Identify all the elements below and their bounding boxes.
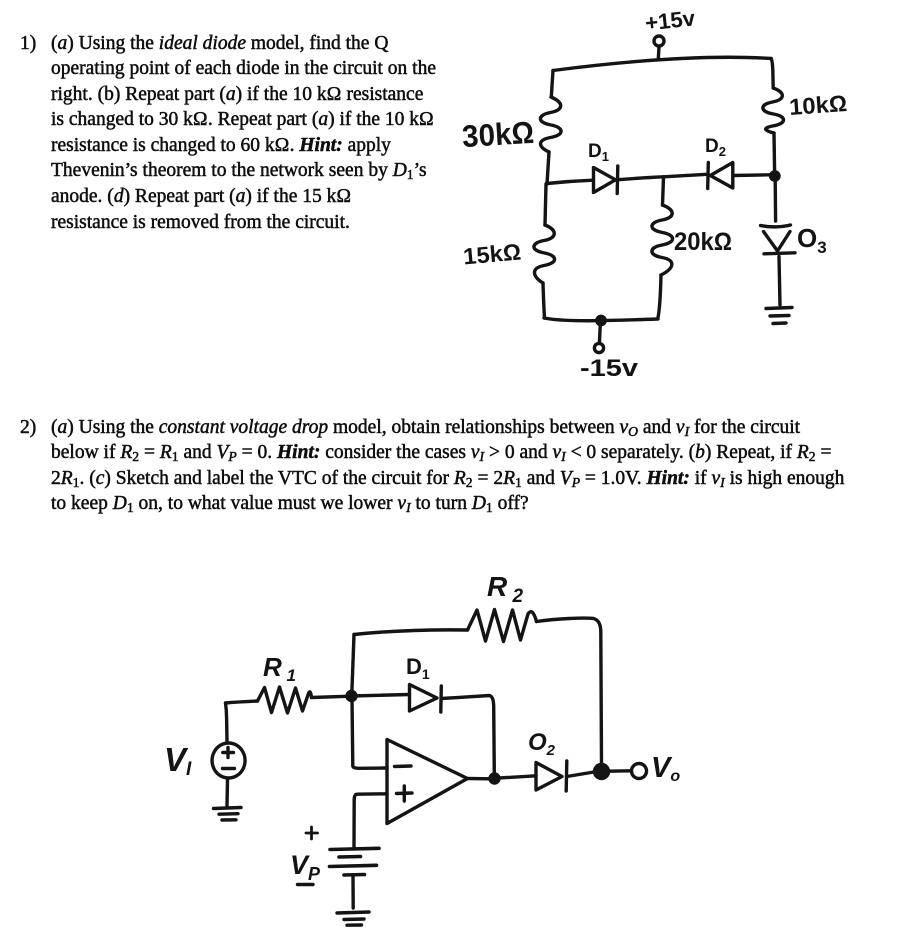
wire node to D3	[774, 180, 778, 221]
svg-text:D1: D1	[588, 141, 609, 164]
wire middle node to D2	[664, 174, 708, 177]
wire 20k bottom	[658, 275, 661, 318]
svg-text:10kΩ: 10kΩ	[788, 90, 848, 120]
svg-text:Vo: Vo	[651, 752, 680, 785]
label D1	[588, 141, 609, 164]
wire D1 to middle node	[616, 177, 664, 180]
svg-text:D1: D1	[406, 654, 430, 682]
problem 1 number	[20, 31, 36, 57]
label VP	[290, 850, 321, 884]
wire below source	[225, 780, 229, 807]
source VI minus	[223, 767, 235, 770]
source VI circle	[212, 743, 245, 778]
svg-text:15kΩ: 15kΩ	[462, 239, 522, 270]
svg-text:+15v: +15v	[644, 5, 697, 35]
wire D1 to output corner	[441, 696, 494, 775]
diode D1 triangle	[594, 168, 616, 193]
ground VP	[337, 912, 369, 913]
svg-text:R 2: R 2	[487, 571, 524, 607]
svg-text:O2: O2	[528, 729, 556, 759]
wire terminal stub	[657, 47, 661, 60]
diode D1 bar (circuit 2)	[439, 686, 443, 712]
battery VP plate short 1	[339, 855, 361, 859]
svg-text:VI: VI	[164, 741, 192, 780]
wire feedback left vertical	[352, 635, 354, 695]
label 30kOhm	[461, 115, 535, 154]
wire 15k top	[545, 184, 546, 225]
terminal vo	[632, 764, 647, 779]
wire node to D1	[352, 695, 410, 697]
node output of op-amp	[490, 774, 499, 783]
op-amp plus	[397, 786, 413, 801]
wire to D2	[499, 776, 536, 778]
wire D2 to right node	[733, 173, 771, 177]
label R1	[263, 652, 296, 685]
label -15V	[580, 355, 639, 382]
label D2 (circuit 2)	[528, 729, 556, 759]
svg-text:30kΩ: 30kΩ	[461, 115, 535, 154]
wire op-amp output	[468, 777, 491, 781]
wire left upper	[551, 71, 553, 98]
wire -15V stub	[598, 324, 602, 343]
wire top rail	[553, 57, 771, 70]
label vo	[651, 752, 680, 785]
wire source to R1	[226, 701, 258, 703]
op-amp minus	[395, 764, 412, 768]
svg-text:D2: D2	[705, 136, 726, 159]
wire feedback top left	[354, 630, 468, 635]
diode D2 triangle (circuit 2)	[536, 763, 562, 791]
wire node A to D1	[547, 180, 593, 183]
wire to terminal	[608, 769, 631, 773]
diode D2 bar	[706, 163, 710, 189]
label D2	[705, 136, 726, 159]
diode D3 bar	[764, 253, 795, 254]
label R2	[487, 571, 524, 607]
wire inverting input	[352, 698, 387, 768]
label +15V	[644, 5, 697, 35]
svg-text:-15v: -15v	[580, 355, 639, 382]
problem 2 number	[20, 415, 36, 441]
wire bottom rail	[544, 318, 658, 321]
label D3	[797, 223, 827, 257]
wire 15k bottom	[543, 283, 545, 318]
label 10kOhm	[788, 90, 848, 120]
battery VP plate long 1	[330, 848, 379, 849]
wire feedback right + vertical	[537, 618, 602, 764]
resistor 15k	[534, 225, 555, 283]
junction node right	[771, 172, 779, 180]
wire D3 to ground	[779, 257, 780, 306]
resistor 30k	[540, 97, 561, 152]
wire 20k top	[663, 177, 664, 205]
battery VP plate long 2	[330, 865, 377, 866]
ground 1	[766, 308, 792, 309]
diode D3 top edge	[761, 225, 791, 227]
label VI	[164, 741, 192, 780]
svg-text:R 1: R 1	[263, 652, 296, 685]
op-amp U1	[387, 740, 468, 824]
wire right mid	[772, 133, 776, 172]
diode D2 bar (circuit 2)	[565, 761, 569, 791]
svg-text:VP: VP	[290, 850, 321, 884]
problem 1 text	[51, 31, 436, 236]
resistor R2	[468, 610, 537, 642]
label VP plus	[306, 827, 318, 839]
label VP minus	[298, 883, 314, 886]
wire non-inverting input	[354, 794, 387, 848]
label 20kOhm	[674, 228, 732, 256]
wire left mid	[547, 152, 549, 184]
svg-text:20kΩ: 20kΩ	[674, 228, 732, 256]
diode D1 bar	[616, 166, 620, 194]
svg-text:O3: O3	[797, 223, 827, 257]
wire R1 to node	[312, 696, 348, 697]
source VI plus	[223, 748, 234, 758]
label D1 (circuit 2)	[406, 654, 430, 682]
node inverting input	[347, 692, 356, 701]
problem 2 text	[51, 415, 844, 517]
battery VP plate short 2	[344, 873, 365, 877]
diode D2 triangle	[710, 163, 733, 189]
wire source top bend	[226, 703, 228, 742]
ground VI	[214, 808, 242, 809]
diode D1 triangle (circuit 2)	[410, 685, 438, 712]
resistor 20k	[652, 205, 673, 275]
wire D2 to output node	[567, 772, 594, 777]
junction node bottom	[597, 316, 605, 324]
label 15kOhm	[462, 239, 522, 270]
terminal -15V	[594, 343, 603, 352]
resistor R1	[258, 687, 312, 713]
node output	[595, 765, 609, 779]
diode D3 triangle sides	[764, 232, 791, 252]
wire battery to ground	[351, 877, 355, 908]
resistor 10k	[763, 88, 784, 133]
terminal +15V	[654, 36, 664, 46]
wire right upper	[771, 59, 773, 89]
